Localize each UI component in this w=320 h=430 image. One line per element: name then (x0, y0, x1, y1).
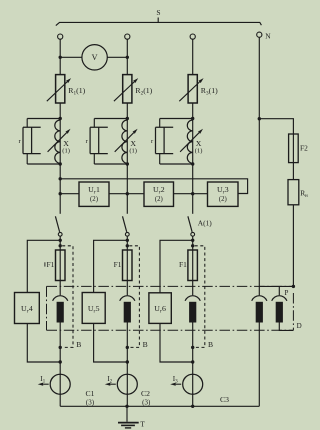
terminal node phase 1 (58, 34, 63, 39)
junction dot phase 3 B bottom (191, 346, 194, 349)
fuse F1 label phase 3 (179, 260, 187, 269)
resistor R3 value label (201, 86, 218, 97)
node B label phase 3 (208, 340, 213, 349)
switch S blade line (56, 18, 262, 26)
op-amp block U3 (2) (208, 182, 239, 206)
fuse F2 (289, 134, 299, 180)
wire r-branch phase 2 (94, 119, 127, 165)
node B label phase 2 (143, 340, 148, 349)
wire dashed B enclosure phase 3 (195, 246, 205, 348)
svg-text:B: B (208, 340, 213, 349)
wire right valve 2 top (278, 286, 280, 295)
current I1 label (40, 375, 45, 384)
svg-text:F1: F1 (114, 260, 122, 269)
current source I3 (183, 374, 203, 394)
junction dot phase 1 Btap (59, 244, 62, 247)
svg-text:V: V (92, 53, 98, 62)
wire phase 2 terminal to resistor (126, 39, 128, 74)
wire phase 3 terminal to resistor (192, 39, 194, 74)
junction dot phase 1 return (59, 360, 62, 363)
resistor r phase 2 (90, 127, 108, 153)
junction dot bus col3 (191, 405, 194, 408)
svg-text:A(1): A(1) (198, 219, 212, 228)
frame cabinet top chain line (47, 285, 294, 287)
wire phase 3 reactor to contactor (192, 164, 194, 214)
resistor r phase 3 (156, 127, 174, 153)
wire U5 return to phase 2 (94, 324, 128, 363)
inductor X(1) phase 1 (48, 119, 71, 165)
switch A(1) label (198, 219, 212, 228)
junction dot reactor top phase 2 (126, 117, 129, 120)
resistor R1(1) variable (47, 75, 71, 103)
ground T label (140, 419, 145, 428)
frame cabinet right chain line (292, 293, 294, 330)
valve arrester phase 2 (120, 296, 135, 323)
wire U6 return to phase 3 (160, 324, 193, 363)
resistor r phase 1 (23, 127, 41, 153)
resistor r label phase 3 (151, 138, 154, 145)
fuse F1 label phase 2 (114, 260, 122, 269)
wire dashed B enclosure phase 2 (129, 246, 139, 348)
svg-text:B: B (143, 340, 148, 349)
wire node N column (258, 38, 260, 296)
junction dot col1 feedback (59, 177, 62, 180)
op-amp block U1 (2) (79, 182, 109, 206)
junction dot phase 3 Utap (191, 239, 194, 242)
svg-text:C1: C1 (86, 389, 95, 398)
switch contactor phase 3 (188, 216, 195, 236)
svg-text:D: D (297, 322, 302, 330)
valve arrester group P right (272, 296, 287, 323)
junction dot P node (292, 285, 295, 288)
junction dot phase 1 Utap (59, 239, 62, 242)
wire contactor to fuse phase 2 (126, 236, 128, 295)
resistor R3(1) variable (179, 75, 203, 103)
svg-text:(2): (2) (90, 196, 98, 203)
junction dot bus ground (125, 405, 128, 408)
svg-text:(2): (2) (155, 196, 163, 203)
junction dot phase 2 Utap (126, 239, 129, 242)
wire contactor to fuse phase 1 (59, 236, 61, 295)
junction dot col2 voltmeter (126, 56, 129, 59)
current source I1 (50, 374, 70, 394)
valve arrester group P left (252, 296, 267, 323)
frame cabinet left chain line (46, 286, 48, 330)
voltmeter V (82, 45, 107, 70)
wire phase 3 resistor to reactor (192, 103, 194, 120)
junction dot phase 3 return (191, 360, 194, 363)
valve arrester phase 3 (185, 296, 200, 323)
wire U4 return to phase 1 (27, 324, 60, 363)
resistor RL label (300, 189, 308, 199)
wire phase 3 valve to source (192, 323, 194, 407)
inductor X label phase 3 (195, 139, 203, 154)
resistor r label phase 2 (86, 138, 89, 145)
wire voltmeter right (107, 56, 127, 58)
fuse F1 phase 2 (123, 250, 133, 281)
svg-text:(3): (3) (142, 398, 151, 406)
resistor R2 value label (135, 86, 152, 97)
inductor X label phase 2 (129, 139, 137, 154)
svg-text:(2): (2) (219, 196, 227, 203)
node N label (265, 32, 271, 41)
wire phase 2 resistor to reactor (126, 103, 128, 120)
wire N to F2 branch (259, 119, 293, 134)
wire phase 2 reactor to contactor (126, 164, 128, 214)
wire phase 1 reactor to contactor (59, 164, 61, 214)
junction dot phase 1 B bottom (59, 346, 62, 349)
current I2 label (107, 375, 112, 384)
wire RL to P node (292, 205, 294, 287)
svg-text:T: T (140, 419, 145, 428)
svg-text:(3): (3) (86, 398, 95, 406)
wire r-branch phase 1 (27, 119, 60, 165)
wire U1 to col2 (109, 193, 144, 195)
inductor X(1) phase 2 (115, 119, 138, 165)
op-amp block U2 (2) (144, 182, 174, 206)
current I3 arrow (170, 383, 181, 386)
terminal node phase 2 (125, 34, 130, 39)
wire P node horizontal (259, 285, 293, 287)
switch contactor phase 2 (123, 216, 130, 236)
valve arrester phase 1 (53, 296, 68, 323)
current I1 arrow (38, 383, 49, 386)
resistor r label phase 1 (19, 138, 22, 145)
wire contactor to fuse phase 3 (192, 236, 194, 295)
node B label phase 1 (76, 340, 81, 349)
current I3 label (173, 375, 178, 384)
fuse F1 label phase 1 (45, 260, 55, 269)
node P label (284, 289, 288, 297)
fuse F1 phase 1 (56, 250, 66, 281)
node D label (297, 322, 302, 330)
terminal node N (257, 32, 262, 37)
wire feedback line from col1 to U3 right (60, 179, 247, 194)
switch contactor phase 1 (55, 216, 62, 236)
svg-text:(1): (1) (195, 148, 203, 155)
fuse F1 phase 3 (188, 250, 198, 281)
junction dot reactor top phase 3 (191, 117, 194, 120)
wire U5 top feed (94, 240, 128, 292)
junction dot col2 U-row (126, 192, 129, 195)
junction dot phase 2 B bottom (126, 346, 129, 349)
wire voltmeter left (60, 56, 82, 58)
svg-text:P: P (284, 289, 288, 297)
wire phase 1 resistor to reactor (59, 103, 61, 120)
frame cabinet bottom chain line (47, 329, 294, 331)
op-amp block U5 (82, 293, 105, 324)
svg-text:(1): (1) (129, 148, 137, 155)
wire phase 2 valve to source (126, 323, 128, 407)
junction dot col3 U-row (191, 192, 194, 195)
fuse F2 label (300, 144, 308, 153)
junction dot reactor bottom phase 1 (59, 162, 62, 165)
svg-text:C3: C3 (220, 395, 229, 404)
ground T (118, 406, 139, 428)
node C3 label (220, 395, 229, 404)
wire phase 1 terminal to resistor (59, 39, 61, 74)
svg-text:B: B (76, 340, 81, 349)
junction dot reactor top phase 1 (59, 117, 62, 120)
wire r-branch phase 3 (160, 119, 193, 165)
junction dot reactor bottom phase 2 (126, 162, 129, 165)
junction dot col1 voltmeter (59, 56, 62, 59)
switch S label (156, 8, 160, 17)
wire U2 to col3 (174, 193, 208, 195)
svg-text:F1: F1 (179, 260, 187, 269)
svg-text:S: S (156, 8, 160, 17)
terminal node phase 3 (190, 34, 195, 39)
wire phase 1 valve to source (59, 323, 61, 407)
current I2 arrow (105, 383, 116, 386)
wire dashed B enclosure phase 1 (62, 246, 73, 348)
junction dot phase 3 Btap (191, 244, 194, 247)
svg-text:N: N (265, 32, 271, 41)
wire U4 top feed (27, 240, 60, 292)
resistor R2(1) variable (114, 75, 138, 103)
junction dot reactor bottom phase 3 (191, 162, 194, 165)
inductor X label phase 1 (62, 139, 70, 154)
svg-text:F1: F1 (47, 260, 55, 269)
wire col1 to U1 (60, 193, 79, 195)
node C1 label (86, 389, 95, 406)
svg-text:(1): (1) (62, 148, 70, 155)
op-amp block U4 (15, 293, 40, 324)
junction dot phase 2 return (126, 360, 129, 363)
wire right valve 2 to D node (279, 322, 293, 330)
inductor X(1) phase 3 (180, 119, 203, 165)
junction dot phase 2 Btap (126, 244, 129, 247)
wire right valve 1 to bus (258, 323, 260, 407)
resistor R1 value label (68, 86, 85, 97)
node C2 label (141, 389, 151, 406)
op-amp block U6 (149, 293, 171, 324)
current source I2 (117, 374, 137, 394)
junction dot col1 U-row (59, 192, 62, 195)
svg-text:F2: F2 (300, 144, 308, 153)
resistor RL (288, 180, 299, 205)
wire bottom bus (60, 405, 259, 407)
junction dot N to load branch (258, 117, 261, 120)
svg-text:C2: C2 (141, 389, 150, 398)
wire U6 top feed (160, 240, 193, 292)
